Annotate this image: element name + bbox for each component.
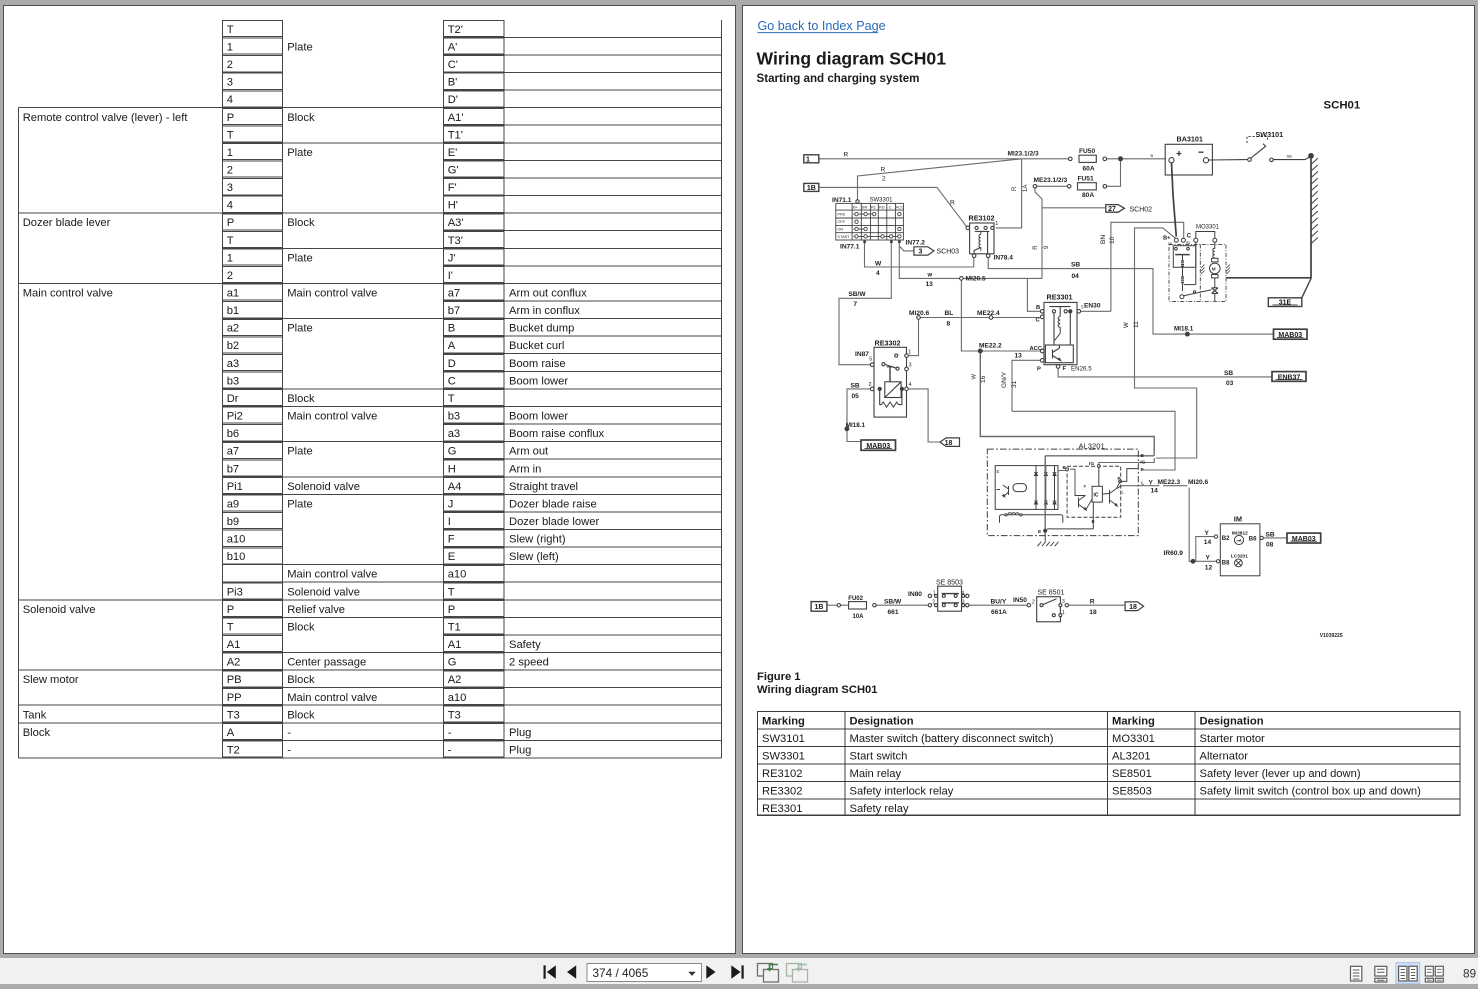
svg-text:R: R (950, 200, 955, 207)
wire 13 to RE3301 P (1012, 360, 1040, 411)
svg-text:W: W (875, 260, 882, 267)
IC box (1092, 486, 1102, 502)
svg-text:T: T (227, 129, 234, 141)
svg-text:1: 1 (908, 350, 911, 356)
destination box MAB03 (upper right) (1274, 329, 1308, 339)
svg-text:MO3301: MO3301 (1112, 733, 1155, 745)
svg-text:MAB03: MAB03 (866, 443, 890, 450)
connector MI20.6 (917, 316, 921, 320)
wire R1A MI23 to RE3102 pin1 (996, 159, 1022, 228)
connector IN71.1 pin (856, 200, 859, 203)
svg-text:IN50: IN50 (1013, 597, 1027, 604)
starter motor MO3301 (1169, 232, 1230, 302)
svg-text:P: P (227, 112, 234, 124)
svg-text:BR: BR (862, 204, 868, 209)
svg-text:ON: ON (837, 226, 843, 231)
svg-text:Pi2: Pi2 (227, 411, 243, 423)
svg-text:OFF: OFF (837, 219, 845, 224)
svg-text:T: T (227, 235, 234, 247)
svg-text:SB: SB (1071, 262, 1080, 269)
main relay RE3102 (966, 223, 994, 258)
starter motor output wire (1226, 277, 1311, 279)
arrow 3 (to SCH03) (914, 247, 934, 255)
svg-text:Relief valve: Relief valve (287, 604, 345, 616)
svg-text:IG: IG (1140, 459, 1145, 465)
svg-text:Y: Y (1206, 555, 1211, 562)
svg-text:IN80: IN80 (908, 591, 922, 598)
svg-text:2: 2 (1032, 599, 1035, 605)
safety relay RE3301 (1040, 302, 1080, 368)
svg-text:A1': A1' (448, 112, 464, 124)
svg-text:a3: a3 (227, 358, 239, 370)
svg-text:MO3301: MO3301 (1196, 224, 1220, 230)
wire GNY31 to AL3201 P (1012, 411, 1175, 470)
svg-text:T: T (227, 621, 234, 633)
svg-text:E: E (1038, 529, 1042, 535)
wire to arrow 27 (1042, 207, 1106, 209)
charge gauge IM3812 (1234, 535, 1243, 544)
svg-text:SE 8501: SE 8501 (1038, 590, 1065, 597)
svg-text:SE8501: SE8501 (1112, 768, 1152, 780)
battery BA3101 (1165, 144, 1212, 175)
svg-text:PRE: PRE (837, 212, 845, 217)
svg-text:4: 4 (876, 270, 880, 277)
svg-text:Boom raise conflux: Boom raise conflux (509, 428, 605, 440)
wire WSB16A to alternator B (980, 353, 1154, 456)
svg-text:BU/Y: BU/Y (991, 599, 1007, 606)
svg-text:Main control valve: Main control valve (287, 411, 377, 423)
svg-text:B6: B6 (1249, 536, 1257, 542)
wire ME23 down (R 9) (1035, 188, 1042, 279)
svg-text:Safety relay: Safety relay (850, 803, 909, 815)
svg-text:F: F (1063, 366, 1067, 372)
svg-text:IN77.1: IN77.1 (840, 244, 860, 251)
svg-text:Block: Block (23, 727, 51, 739)
wire BN10 up and to starter terminal 50 (1111, 222, 1184, 311)
wire FU51 to junction (1107, 159, 1121, 187)
wire BL8 ME22.4 to RE3301 C (920, 317, 989, 319)
svg-text:R: R (1033, 245, 1039, 250)
svg-text:T1': T1' (448, 129, 463, 141)
wire F EN26.5 to ENB37 (SB 03) (1058, 368, 1272, 377)
svg-text:P: P (227, 217, 234, 229)
arrow 18 (right) (1125, 602, 1144, 611)
svg-text:L: L (1141, 480, 1144, 486)
svg-text:R: R (881, 167, 886, 174)
svg-text:60A: 60A (1083, 166, 1095, 173)
svg-text:T1: T1 (448, 621, 461, 633)
svg-text:Block: Block (287, 217, 315, 229)
svg-text:31E: 31E (1279, 300, 1292, 307)
svg-text:Solenoid valve: Solenoid valve (287, 481, 360, 493)
svg-text:RE3302: RE3302 (875, 339, 901, 348)
node 1B box (804, 183, 819, 191)
svg-text:Plug: Plug (509, 727, 531, 739)
svg-text:B: B (1036, 305, 1040, 311)
svg-text:F: F (448, 534, 455, 546)
svg-text:Designation: Designation (1200, 716, 1264, 728)
svg-text:SW3301: SW3301 (870, 198, 894, 204)
svg-text:1A: 1A (1023, 185, 1029, 192)
svg-text:SE 8503: SE 8503 (936, 580, 963, 587)
connector MI20.5 (960, 277, 964, 281)
svg-text:a7: a7 (227, 446, 239, 458)
svg-text:14: 14 (1204, 539, 1212, 546)
wire SBW7 to RE3302 pin5 (839, 243, 891, 365)
svg-text:Wiring diagram SCH01: Wiring diagram SCH01 (757, 684, 878, 696)
page number box (587, 964, 702, 982)
wire ME23 to FU51 (1037, 185, 1068, 187)
arrow 27 (to SCH02) (1106, 205, 1125, 213)
svg-text:ME22.3: ME22.3 (1158, 479, 1181, 486)
svg-text:E: E (448, 551, 455, 563)
svg-text:661: 661 (888, 609, 899, 616)
svg-text:B: B (1151, 153, 1154, 158)
svg-text:2: 2 (869, 382, 872, 388)
svg-text:IM3812: IM3812 (1232, 531, 1248, 537)
svg-text:16: 16 (980, 375, 987, 383)
svg-text:MI20.6: MI20.6 (909, 310, 929, 317)
svg-text:PP: PP (227, 692, 242, 704)
safety interlock relay RE3302 (870, 347, 908, 417)
svg-text:b6: b6 (227, 428, 239, 440)
arrow 18 (left) (940, 438, 960, 447)
svg-text:Plate: Plate (287, 252, 313, 264)
svg-text:G: G (448, 446, 457, 458)
svg-text:661A: 661A (991, 609, 1007, 616)
bottom feed wires (827, 604, 837, 606)
svg-text:D: D (448, 358, 456, 370)
svg-text:START: START (837, 234, 850, 239)
node 1 box (804, 155, 819, 163)
wire RE3302 pin4 to arrow 18 (908, 389, 939, 442)
svg-text:SCH01: SCH01 (1324, 100, 1361, 112)
svg-text:ME22.2: ME22.2 (979, 343, 1002, 350)
svg-text:C': C' (448, 59, 458, 71)
svg-text:Y: Y (1149, 479, 1154, 486)
svg-text:B2: B2 (1222, 536, 1230, 542)
svg-text:Main control valve: Main control valve (23, 288, 113, 300)
svg-text:Plate: Plate (287, 147, 313, 159)
svg-text:SCH02: SCH02 (1130, 206, 1153, 213)
svg-text:3: 3 (962, 600, 965, 606)
svg-text:J': J' (448, 252, 456, 264)
svg-text:1: 1 (1062, 610, 1065, 616)
svg-text:H': H' (448, 200, 458, 212)
svg-text:SB/W: SB/W (884, 599, 902, 606)
master switch SW3101 (1209, 137, 1311, 162)
svg-text:Arm out conflux: Arm out conflux (509, 288, 587, 300)
svg-text:89: 89 (1463, 967, 1476, 981)
wire SW3301 ACC to arrow3 (899, 246, 914, 251)
svg-text:SW3301: SW3301 (762, 751, 805, 763)
svg-text:b7: b7 (227, 463, 239, 475)
svg-text:E': E' (448, 147, 458, 159)
svg-text:13: 13 (926, 281, 934, 288)
svg-text:2: 2 (227, 59, 233, 71)
fuse FU02 (837, 602, 876, 609)
svg-text:08: 08 (1266, 541, 1274, 548)
svg-text:SB/W: SB/W (848, 291, 866, 298)
svg-text:RE3102: RE3102 (762, 768, 802, 780)
svg-text:B: B (1141, 453, 1145, 459)
svg-text:Center passage: Center passage (287, 657, 366, 669)
svg-text:BA3101: BA3101 (1177, 134, 1203, 143)
svg-text:B': B' (448, 77, 458, 89)
svg-text:Block: Block (287, 621, 315, 633)
svg-text:14: 14 (1151, 487, 1159, 494)
junction dot FU50/FU51 (1119, 157, 1123, 161)
svg-text:B+: B+ (853, 204, 859, 209)
svg-text:1: 1 (227, 42, 233, 54)
svg-text:SW3101: SW3101 (1256, 130, 1284, 139)
svg-text:M: M (1212, 267, 1216, 272)
svg-text:05: 05 (852, 393, 860, 400)
svg-text:a10: a10 (448, 569, 467, 581)
svg-text:D': D' (448, 94, 458, 106)
alternator AL3201 (987, 449, 1138, 546)
svg-text:4: 4 (227, 200, 233, 212)
destination box MAB03 (IM) (1287, 533, 1321, 543)
safety lever switch SE8501 (1027, 597, 1068, 622)
svg-text:2: 2 (227, 165, 233, 177)
svg-text:-: - (287, 745, 291, 757)
wire L Y14 ME22.3 MI20.6 (1121, 485, 1159, 487)
connector ME22.4 (989, 316, 993, 320)
wire 1B to RE3102 (819, 187, 967, 227)
svg-text:FU50: FU50 (1079, 148, 1095, 155)
svg-text:MI18.1: MI18.1 (1174, 326, 1194, 333)
svg-text:30: 30 (1168, 242, 1172, 246)
svg-text:SE8503: SE8503 (1112, 786, 1152, 798)
svg-text:1B: 1B (815, 604, 824, 611)
svg-text:Bucket dump: Bucket dump (509, 323, 574, 335)
wire IM B6 to MAB03 (SB 08) (1264, 537, 1288, 539)
stator windings (1000, 515, 1063, 523)
svg-text:Dozer blade lever: Dozer blade lever (23, 217, 111, 229)
svg-text:P: P (448, 604, 455, 616)
ground (chassis) right rail (1309, 154, 1313, 279)
svg-text:FU02: FU02 (848, 596, 863, 602)
svg-text:C: C (889, 204, 892, 209)
svg-text:Safety interlock relay: Safety interlock relay (850, 786, 954, 798)
svg-text:Safety limit switch (control b: Safety limit switch (control box up and … (1200, 786, 1422, 798)
svg-text:FU51: FU51 (1078, 175, 1094, 182)
field coil and exciter transistor (1013, 484, 1027, 492)
svg-text:T3: T3 (448, 709, 461, 721)
svg-text:Dozer blade raise: Dozer blade raise (509, 498, 597, 510)
svg-text:G': G' (448, 165, 459, 177)
svg-text:ACC: ACC (896, 204, 904, 209)
prev page button (567, 965, 576, 978)
svg-text:AL3201: AL3201 (1079, 442, 1105, 451)
svg-text:Pi3: Pi3 (227, 586, 243, 598)
svg-text:ME23.1/2/3: ME23.1/2/3 (1034, 177, 1068, 184)
svg-text:GN/Y: GN/Y (1001, 371, 1008, 388)
internal links (1058, 470, 1067, 472)
svg-text:11: 11 (1133, 321, 1140, 328)
svg-text:Boom raise: Boom raise (509, 358, 566, 370)
svg-text:E: E (1092, 519, 1096, 525)
svg-text:P: P (1118, 476, 1121, 481)
svg-text:1B: 1B (807, 185, 816, 192)
svg-text:b9: b9 (227, 516, 239, 528)
svg-text:RE3301: RE3301 (1047, 293, 1073, 302)
instrument module IM (1191, 524, 1321, 576)
svg-text:Block: Block (287, 112, 315, 124)
svg-text:SB: SB (851, 383, 860, 390)
two page layout icon (selected) (1396, 963, 1420, 984)
svg-text:Solenoid valve: Solenoid valve (23, 604, 96, 616)
wire R2 diagonal MI23 to SW3301 (858, 159, 1022, 200)
wire MI20.5 junction to RE3301 B (963, 277, 1042, 279)
svg-text:MAB03: MAB03 (1292, 536, 1316, 543)
svg-text:SB: SB (1224, 370, 1233, 377)
SW3301 bottom pins (863, 240, 900, 243)
svg-text:10: 10 (1109, 236, 1116, 244)
svg-text:RG: RG (879, 204, 885, 209)
svg-text:Main control valve: Main control valve (287, 692, 377, 704)
svg-text:T: T (448, 586, 455, 598)
svg-text:80A: 80A (1082, 192, 1094, 199)
svg-text:a7: a7 (448, 288, 460, 300)
svg-text:RE3301: RE3301 (762, 803, 802, 815)
svg-text:3: 3 (909, 363, 912, 369)
wire MI20.5 down to ME22.2 (961, 280, 978, 351)
svg-text:a3: a3 (448, 428, 460, 440)
svg-text:Main control valve: Main control valve (287, 569, 377, 581)
svg-text:P: P (1037, 367, 1041, 373)
svg-text:Master switch (battery disconn: Master switch (battery disconnect switch… (850, 733, 1054, 745)
svg-text:Main control valve: Main control valve (287, 288, 377, 300)
svg-text:MI20.5: MI20.5 (966, 276, 986, 283)
motor armature M (1210, 263, 1221, 274)
svg-text:03: 03 (1226, 380, 1234, 387)
wire RE3302 pin1 to MI20.6 (908, 319, 918, 355)
svg-text:IN71.1: IN71.1 (832, 197, 852, 204)
single page layout icon (1351, 966, 1362, 981)
svg-text:-: - (448, 745, 452, 757)
wire SB05 RE3302 to MAB03 (847, 389, 870, 442)
svg-text:1: 1 (933, 590, 936, 596)
next page button (706, 965, 715, 978)
svg-text:10A: 10A (853, 614, 865, 620)
svg-text:EN30: EN30 (1084, 303, 1101, 310)
svg-text:R1: R1 (871, 204, 876, 209)
node 31E box (1268, 298, 1302, 307)
svg-text:a9: a9 (227, 498, 239, 510)
svg-text:A1: A1 (448, 639, 462, 651)
reverse view icon (disabled) (787, 964, 808, 983)
svg-text:P: P (227, 604, 234, 616)
svg-text:2: 2 (932, 600, 935, 606)
svg-text:b10: b10 (227, 551, 246, 563)
svg-text:Slew (left): Slew (left) (509, 551, 559, 563)
svg-text:18: 18 (1129, 604, 1137, 611)
svg-text:A': A' (448, 42, 458, 54)
wire EN30 to BN10 (1081, 310, 1111, 312)
svg-text:A2: A2 (448, 674, 462, 686)
svg-text:IR60.9: IR60.9 (1164, 550, 1184, 557)
svg-text:A2: A2 (227, 657, 241, 669)
svg-text:a10: a10 (448, 692, 467, 704)
svg-text:T2': T2' (448, 24, 463, 36)
svg-text:I: I (448, 516, 451, 528)
svg-text:A: A (448, 340, 456, 352)
wire Y12 down to IM B8 (1189, 488, 1216, 562)
svg-text:4: 4 (909, 382, 912, 388)
svg-text:50: 50 (1186, 241, 1190, 245)
wire FU50 to battery (1107, 158, 1166, 160)
svg-text:2 speed: 2 speed (509, 657, 549, 669)
rectifier diodes (1035, 466, 1037, 510)
svg-text:2: 2 (227, 270, 233, 282)
svg-text:B+: B+ (1163, 235, 1171, 241)
svg-text:R: R (1090, 599, 1095, 606)
svg-text:IG: IG (1089, 461, 1094, 467)
svg-text:Pi1: Pi1 (227, 481, 243, 493)
svg-text:Block: Block (287, 709, 315, 721)
svg-text:T: T (227, 24, 234, 36)
wire SB04 RE3102 to MAB03 (988, 258, 1273, 334)
svg-text:Tank: Tank (23, 709, 47, 721)
wire ME22.2 to RE3301 ACC (982, 350, 1040, 352)
svg-text:Starter motor: Starter motor (1200, 733, 1266, 745)
link: Go back to Index Page (758, 19, 886, 33)
wire W11 from starter Bplus down to alternator IG loop (1135, 228, 1197, 458)
svg-text:IN77.2: IN77.2 (906, 240, 926, 247)
svg-text:Arm in conflux: Arm in conflux (509, 305, 580, 317)
svg-text:ME22.4: ME22.4 (977, 310, 1000, 317)
svg-text:SW3101: SW3101 (762, 733, 805, 745)
svg-text:Plate: Plate (287, 323, 313, 335)
svg-text:C: C (448, 375, 456, 387)
svg-text:Plate: Plate (287, 498, 313, 510)
svg-text:A1: A1 (227, 639, 241, 651)
svg-text:Main relay: Main relay (850, 768, 902, 780)
svg-text:Alternator: Alternator (1200, 751, 1249, 763)
junction MI18.1 (845, 427, 849, 431)
svg-text:3: 3 (919, 249, 923, 256)
svg-text:BL: BL (945, 310, 954, 317)
svg-text:A3': A3' (448, 217, 464, 229)
svg-text:1: 1 (995, 221, 998, 227)
svg-text:18: 18 (1089, 609, 1097, 616)
svg-text:13: 13 (1015, 353, 1023, 360)
svg-text:Go back to Index Page: Go back to Index Page (758, 19, 886, 33)
svg-text:Marking: Marking (762, 716, 805, 728)
fuse FU51 (1033, 183, 1106, 190)
wire w13 to MI20.5 (899, 243, 959, 278)
svg-text:Solenoid valve: Solenoid valve (287, 586, 360, 598)
wire node1 to FU50 (820, 158, 1069, 160)
svg-text:b7: b7 (448, 305, 460, 317)
destination box ENB37 (1272, 372, 1306, 382)
svg-text:-: - (448, 727, 452, 739)
first page button (544, 965, 556, 978)
left page (3, 5, 736, 954)
wire W4 SW3301 to RE3102 (865, 243, 974, 267)
svg-text:a2: a2 (227, 323, 239, 335)
svg-text:Y: Y (1205, 530, 1210, 537)
svg-text:Plug: Plug (509, 745, 531, 757)
svg-text:31: 31 (1011, 380, 1018, 388)
svg-text:I': I' (448, 270, 453, 282)
svg-text:Marking: Marking (1112, 716, 1155, 728)
svg-text:T3': T3' (448, 235, 463, 247)
svg-text:W: W (972, 374, 978, 380)
svg-text:IC: IC (1094, 493, 1099, 499)
